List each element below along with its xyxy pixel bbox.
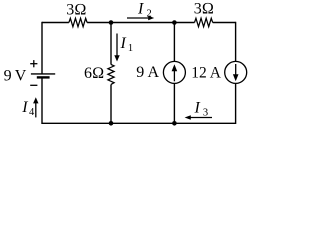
current source 12A inner arrow (down) bbox=[233, 64, 239, 81]
wire left vertical lower bbox=[41, 77, 43, 124]
current source 9A circle bbox=[163, 61, 185, 83]
wire 6ohm branch upper bbox=[110, 23, 112, 65]
svg-text:6Ω: 6Ω bbox=[84, 65, 104, 82]
wire 9A branch upper bbox=[173, 23, 175, 62]
svg-text:3Ω: 3Ω bbox=[194, 1, 214, 18]
svg-text:I3: I3 bbox=[194, 100, 209, 119]
resistor R2 6ohm vertical zigzag bbox=[108, 64, 114, 84]
wire right vertical upper bbox=[235, 22, 237, 62]
current source 12A circle bbox=[225, 61, 247, 83]
svg-text:I1: I1 bbox=[120, 35, 134, 54]
resistor R1 3ohm top-left zigzag bbox=[69, 18, 87, 26]
node dot bottom at 6ohm branch bbox=[109, 121, 114, 126]
svg-text:3Ω: 3Ω bbox=[66, 2, 86, 19]
wire 6ohm branch lower bbox=[110, 85, 112, 124]
wire left vertical upper bbox=[41, 22, 43, 74]
battery plus sign bbox=[30, 60, 37, 67]
resistor R3 3ohm top-right zigzag bbox=[195, 18, 213, 26]
wire 9A branch lower bbox=[173, 83, 175, 123]
current arrow I4 (up) bbox=[33, 97, 38, 117]
wire top-left segment bbox=[42, 22, 69, 24]
current arrow I1 (down) bbox=[114, 34, 119, 62]
svg-text:I2: I2 bbox=[137, 0, 152, 19]
svg-text:9 V: 9 V bbox=[4, 67, 27, 84]
wire bottom segment bbox=[42, 122, 236, 124]
node dot bottom at 9A branch bbox=[172, 121, 177, 126]
current arrow I3 (left) bbox=[185, 115, 212, 119]
current source 9A inner arrow (up) bbox=[172, 64, 178, 81]
svg-text:12 A: 12 A bbox=[191, 65, 222, 82]
node dot top at 9A branch bbox=[172, 20, 177, 25]
current arrow I2 bbox=[127, 16, 154, 20]
wire top-right segment bbox=[213, 22, 236, 24]
battery V1 9V long plate (+) bbox=[31, 73, 55, 75]
battery minus sign bbox=[30, 84, 37, 86]
svg-text:9 A: 9 A bbox=[136, 64, 159, 81]
node dot top at 6ohm branch bbox=[109, 20, 114, 25]
wire right vertical lower bbox=[235, 83, 237, 124]
svg-text:I4: I4 bbox=[21, 99, 35, 118]
wire top-middle segment bbox=[87, 22, 194, 24]
battery V1 9V short plate (-) bbox=[37, 76, 50, 78]
